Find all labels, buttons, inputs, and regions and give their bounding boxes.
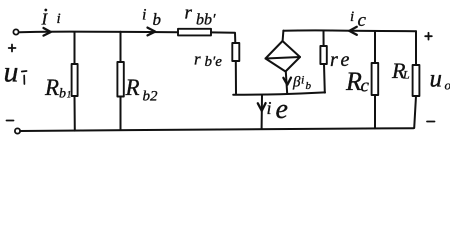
- resistor Rc bottom lead: [374, 95, 376, 128]
- resistor re: [320, 46, 326, 64]
- resistor Rb1 bottom lead: [74, 96, 76, 131]
- wire: collector top rail: [283, 29, 416, 32]
- input terminal top-left: [13, 29, 18, 34]
- svg-text:bb′: bb′: [196, 12, 216, 29]
- resistor RL bottom lead: [414, 96, 416, 128]
- svg-text:b′e: b′e: [205, 54, 223, 70]
- svg-text:L: L: [402, 68, 410, 82]
- svg-text:R: R: [345, 67, 362, 96]
- wire: emitter rail: [233, 92, 325, 94]
- resistor Rb2: [117, 62, 123, 97]
- arrow ib on top rail: [148, 28, 156, 36]
- svg-text:o: o: [445, 78, 450, 93]
- svg-text:i: i: [350, 9, 354, 25]
- resistor Rb1: [72, 64, 78, 96]
- resistor Rb2 top lead: [120, 32, 122, 62]
- wire: r_b'e bottom lead down to emitter rail: [235, 61, 237, 94]
- svg-text:I: I: [41, 10, 49, 29]
- svg-text:β: β: [292, 75, 301, 91]
- wire: diamond bottom lead to emitter rail: [286, 72, 287, 94]
- svg-text:r: r: [194, 50, 201, 69]
- svg-text:u: u: [430, 66, 443, 93]
- arrow ie: [258, 103, 266, 111]
- resistor r_b'e: [232, 43, 239, 61]
- svg-text:i: i: [142, 7, 146, 24]
- svg-text:b2: b2: [143, 89, 159, 105]
- svg-text:r: r: [330, 49, 338, 71]
- current source diamond: [266, 41, 301, 72]
- svg-text:b: b: [153, 10, 162, 29]
- svg-text:1: 1: [67, 90, 72, 100]
- resistor re top lead: [323, 31, 325, 46]
- resistor Rb1 top lead: [74, 32, 76, 64]
- svg-text:i: i: [301, 73, 304, 87]
- svg-text:r: r: [185, 3, 193, 24]
- svg-text:b: b: [306, 80, 312, 92]
- arrow beta-ib: [283, 78, 291, 85]
- svg-text:R: R: [44, 75, 59, 100]
- svg-text:c: c: [361, 76, 370, 97]
- svg-text:u: u: [4, 56, 19, 89]
- svg-text:e: e: [276, 94, 288, 125]
- resistor Rb2 bottom lead: [120, 97, 122, 131]
- wire: diamond top to collector rail: [282, 31, 285, 41]
- resistor RL: [413, 65, 420, 96]
- resistor RL top lead: [415, 31, 417, 65]
- resistor r_bb': [178, 29, 211, 36]
- wire: ie branch from emitter rail to bottom rail: [261, 95, 263, 129]
- svg-text:c: c: [358, 10, 367, 31]
- minus sign output: [427, 121, 435, 123]
- minus sign input: [7, 120, 14, 122]
- resistor re bottom lead: [323, 64, 326, 93]
- input terminal bottom-left: [15, 128, 20, 133]
- resistor Rc top lead: [374, 31, 376, 63]
- svg-text:R: R: [125, 75, 140, 100]
- wire: r_bb' to node B' corner going down: [211, 32, 235, 43]
- wire: top rail from input terminal to r_bb': [20, 31, 179, 34]
- svg-text:b: b: [59, 87, 66, 102]
- plus sign output: [425, 33, 432, 40]
- svg-text:i: i: [267, 98, 272, 118]
- svg-text:i: i: [57, 11, 61, 27]
- arrow ic (pointing left): [349, 27, 357, 35]
- label ui subscript i: [22, 71, 27, 84]
- current source diamond horizontal bar: [266, 57, 301, 59]
- arrow Ii on top rail: [44, 28, 51, 36]
- resistor Rc: [372, 63, 379, 95]
- plus sign input: [9, 45, 16, 52]
- wire: bottom rail: [20, 128, 413, 131]
